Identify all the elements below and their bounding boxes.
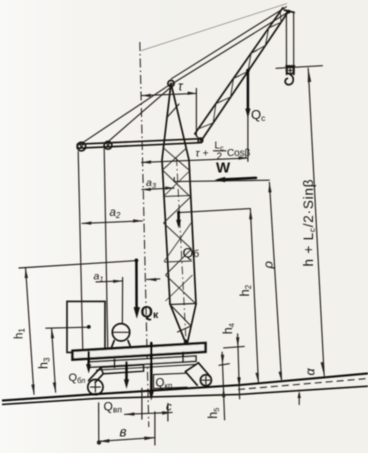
right wheel cross <box>202 376 210 384</box>
dim c arrow right <box>162 411 172 414</box>
left bogie slant lower <box>95 374 103 383</box>
hook block right cheek <box>293 66 295 75</box>
dim a3 line <box>142 188 174 190</box>
dim h3 arrow top <box>51 328 54 338</box>
force Qk application dot <box>135 259 139 263</box>
dim h5 line <box>222 352 225 420</box>
tower bracing zigzag 4 <box>166 249 192 275</box>
dim h5 extension (chassis bottom) <box>219 364 229 366</box>
force Qbl arrowhead <box>86 364 91 374</box>
dim a1 extension <box>121 277 123 322</box>
dim h+Lc arrow top <box>308 68 312 82</box>
force Qbl arrow <box>87 353 90 366</box>
chassis outrigger box (around Qkp label) <box>154 373 188 388</box>
ink blob at dim B left end <box>97 440 101 444</box>
force Qb arrow <box>177 212 180 221</box>
dim tau arrow left <box>142 94 151 97</box>
tower bracing X upper 2 <box>163 148 187 170</box>
tower centerline (dash-dot) <box>177 158 187 341</box>
jib upper chord <box>195 8 283 134</box>
jib lattice rung 1 <box>216 101 222 104</box>
dim rho arrow top <box>268 182 271 192</box>
Qc extension line <box>247 71 249 162</box>
tower bottom taper right <box>188 304 197 343</box>
svg-text:W: W <box>216 160 231 177</box>
tower taper brace 1 <box>171 305 192 326</box>
dim B right extension <box>154 412 156 445</box>
dim h5 arrow lower (up at ground) <box>222 388 225 398</box>
dim h4 arrow lower (down at ground) <box>237 377 240 387</box>
tower bracing zigzag 1 <box>163 170 191 197</box>
jib heel pivot circle <box>198 138 203 143</box>
tower bracing reverse diagonal 2 <box>164 223 192 262</box>
jib lattice zigzag <box>198 12 281 129</box>
force Qb arrowhead <box>176 220 181 229</box>
wind level extension line <box>174 180 269 181</box>
force Qc arrow <box>247 71 250 111</box>
dim cosB arrow right <box>238 156 248 159</box>
counter-jib pulley circle 1 <box>77 142 86 151</box>
counter-jib bar top edge <box>78 139 201 145</box>
horizontal reference dashed line for slope angle <box>238 379 368 390</box>
dim a3 arrow right <box>165 186 174 189</box>
counterweight hanger rod 1 <box>78 152 83 352</box>
force Qvp arrowhead <box>124 379 129 389</box>
hook <box>285 74 293 84</box>
dim c line <box>125 412 173 414</box>
angle alpha arrow <box>298 393 300 404</box>
svg-text:Cosβ: Cosβ <box>227 148 250 159</box>
hook block top <box>286 65 295 67</box>
king-pin connector left <box>114 360 116 368</box>
dim B arrow left <box>99 439 110 443</box>
tower bracing zigzag 3 <box>164 223 192 249</box>
Qb application dot <box>177 211 180 214</box>
tower foot blob <box>184 340 188 344</box>
jib lower chord <box>201 12 288 141</box>
force Qkp arrow <box>150 343 153 392</box>
force Qk arrow <box>135 260 138 308</box>
dim a1 right segment <box>147 278 160 281</box>
dim B line <box>99 438 155 442</box>
dim tau line <box>142 93 197 95</box>
king-pin connector right <box>182 352 184 361</box>
angle alpha arrowhead <box>298 391 301 398</box>
dim c left extension <box>141 388 143 419</box>
dim rho line <box>269 182 281 381</box>
dim a3 right extension <box>173 178 175 182</box>
dim a1 left segment <box>96 281 123 282</box>
jib lattice rung 3 <box>251 51 257 54</box>
counter-jib bar left cap <box>77 144 79 148</box>
dim tau extension to jib heel <box>195 88 197 136</box>
jib stay cable lower <box>172 12 288 84</box>
tower taper brace 2 <box>178 326 192 332</box>
jib tip cap <box>284 10 294 12</box>
dim rho arrow bottom <box>279 372 282 382</box>
left wheel <box>88 380 103 395</box>
dim h4 line <box>238 334 240 399</box>
left wheel cross <box>91 382 101 392</box>
tower left chord <box>162 84 171 305</box>
tower right chord <box>171 84 196 305</box>
force Qkp arrowhead <box>149 391 154 401</box>
h2 top extension <box>179 209 251 213</box>
stay cable from counter-jib pulley 1 to tower top <box>83 84 171 143</box>
dim h4 arrow upper (down to platform ext) <box>236 337 239 347</box>
dim tau+Lc/2 cosB line <box>142 158 248 162</box>
dim h+Lc/2SinB line <box>308 68 324 376</box>
chassis frame bar <box>89 356 196 367</box>
ground line upper <box>2 373 368 400</box>
hook block left cheek <box>286 66 288 75</box>
stay cable from counter-jib pulley 2 to tower top <box>109 86 172 141</box>
dim h5 arrow upper <box>221 355 224 365</box>
tower bracing horizontal 2 <box>165 261 193 262</box>
dim B left extension <box>98 403 100 444</box>
tower bracing zigzag 5 <box>166 275 196 303</box>
force Qvp arrow <box>125 363 128 381</box>
svg-text:c: c <box>166 402 172 414</box>
dim B arrow right <box>144 437 155 441</box>
Qc application dot <box>246 69 250 73</box>
jib stay cable upper <box>171 7 286 79</box>
hoist rope right <box>293 13 295 67</box>
dim c arrow left <box>125 412 135 415</box>
tower A-frame internal brace <box>167 104 180 118</box>
dim h2 arrow top <box>249 209 252 219</box>
jib heel cap <box>195 134 201 141</box>
counterweight hanger rod 2 <box>104 149 108 350</box>
crane rotation axis (dash-dot centerline) <box>140 42 149 427</box>
force Qk arrowhead <box>134 307 140 319</box>
counter-jib pulley 2 cross <box>105 143 110 148</box>
tower bracing horizontal at taper <box>170 304 196 305</box>
right bogie cap <box>185 363 198 372</box>
dim a3 arrow left <box>142 188 151 191</box>
tower bracing X upper <box>164 148 190 170</box>
tower top pulley circle <box>168 80 174 86</box>
tower bracing reverse diagonal 3 <box>166 275 193 301</box>
jib lattice rung 4 <box>269 25 275 28</box>
jib lattice rung 2 <box>234 76 240 79</box>
right bogie upper edge <box>198 363 210 377</box>
right bogie lower edge <box>185 372 197 386</box>
tower bracing horizontal 1 <box>163 196 191 197</box>
dim h2 line <box>250 209 258 382</box>
dim a1 arrow left-pointing <box>147 278 157 281</box>
right wheel <box>200 375 211 386</box>
dim h+Lc arrow bottom <box>321 362 325 376</box>
fraction bar <box>214 150 227 152</box>
left bogie beam <box>101 365 144 374</box>
counterweight CG dot <box>87 325 91 329</box>
slewing pedestal right <box>128 341 132 352</box>
svg-text:τ +: τ + <box>196 148 209 160</box>
dim c right extension <box>167 404 169 422</box>
dim h1 arrow top <box>25 268 28 278</box>
dim h3 top extension <box>46 327 89 328</box>
slewing ring diameter <box>112 331 129 333</box>
svg-text:в: в <box>120 425 127 440</box>
counterweight box <box>67 301 105 352</box>
svg-text:ρ: ρ <box>261 261 276 270</box>
chassis lower rail line <box>96 364 196 370</box>
hook block sheave <box>287 67 294 74</box>
hook block sheave cross <box>287 67 294 74</box>
dim h1 arrow bottom <box>31 384 34 394</box>
dim a2 arrow right <box>133 219 143 222</box>
dim h3 arrow bottom <box>53 382 56 392</box>
dim cosB arrow left <box>142 160 152 163</box>
hoist rope left <box>285 12 287 66</box>
slewing platform bar <box>73 343 206 360</box>
dim a2 arrow left <box>82 221 92 224</box>
dim h4 extension (platform top) <box>224 346 245 348</box>
dim h1 line <box>26 268 34 394</box>
slewing pedestal left <box>110 341 114 352</box>
svg-text:h + Lc/2·Sinβ: h + Lc/2·Sinβ <box>301 179 317 267</box>
svg-text:α: α <box>304 368 318 376</box>
dim h2 arrow bottom <box>255 373 258 383</box>
force W arrowhead <box>215 177 226 182</box>
jib tip pulley <box>287 10 291 14</box>
ground line lower <box>2 386 368 404</box>
dim a1 arrow right-pointing <box>113 280 123 283</box>
force W arrow <box>220 178 257 180</box>
counter-jib pulley circle 2 <box>104 141 112 149</box>
counter-jib bar bottom edge <box>78 143 201 149</box>
hook level extension <box>276 66 322 69</box>
dim h3 line <box>52 328 56 392</box>
tower bracing reverse diagonal 1 <box>164 170 191 197</box>
dim h1 top extension <box>19 261 136 268</box>
tower bottom taper left <box>170 304 186 343</box>
dim tau arrow right <box>187 92 196 95</box>
dim a2 line <box>82 221 142 224</box>
tower bracing zigzag 2 <box>164 197 191 223</box>
faint crease line to jib tip <box>140 4 287 52</box>
left bogie slant upper <box>89 367 101 380</box>
counter-jib pulley 1 cross <box>78 144 84 150</box>
force Qc arrowhead <box>245 109 250 119</box>
slewing ring circle <box>112 324 129 341</box>
